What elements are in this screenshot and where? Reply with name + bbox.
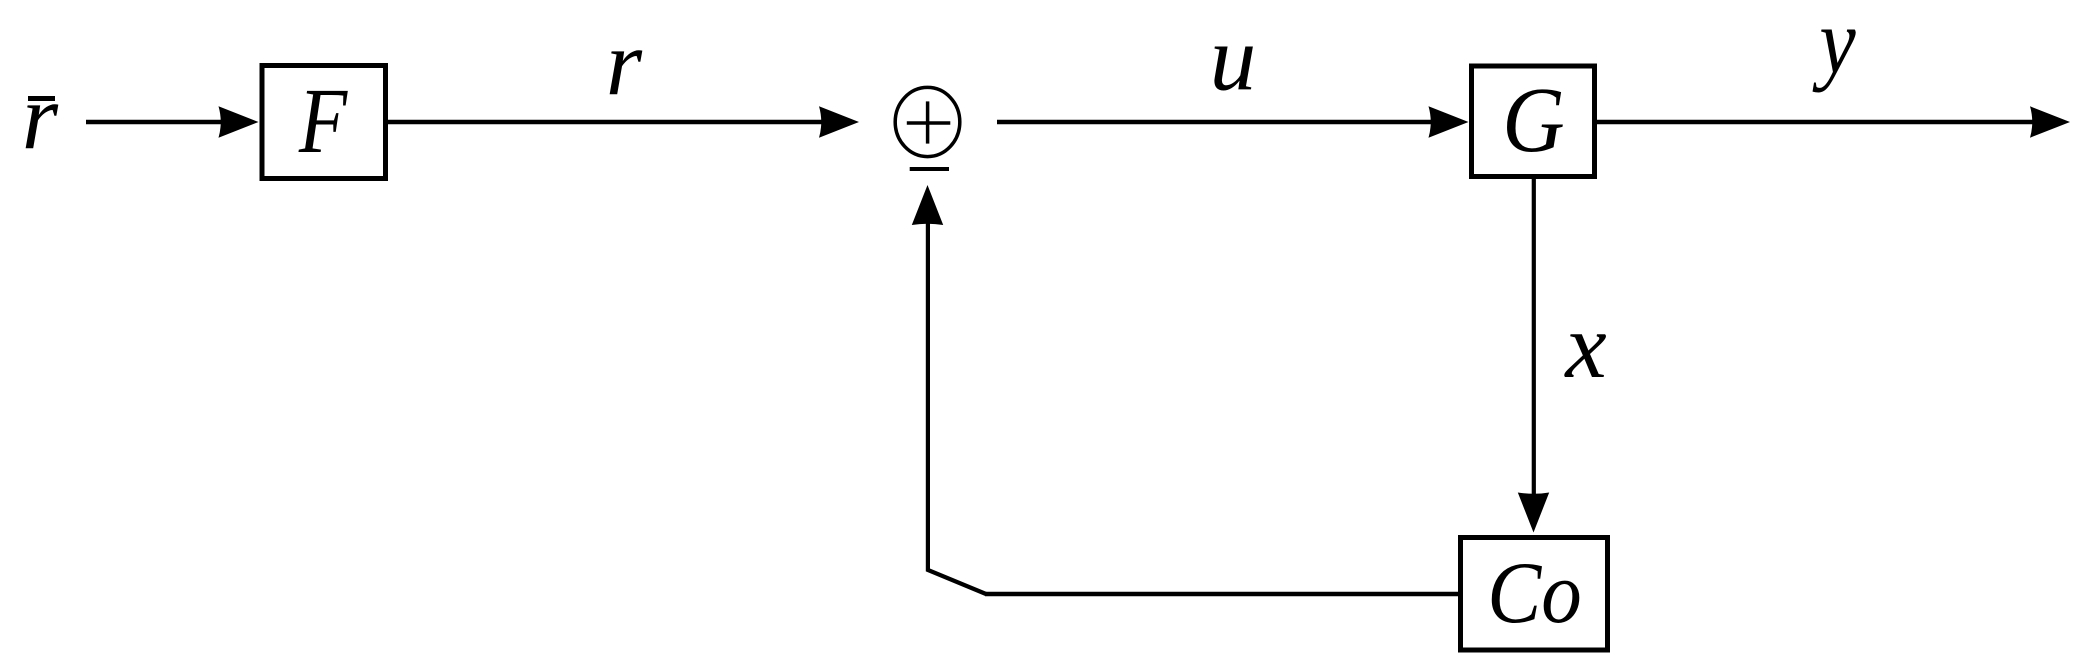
svg-text:Co: Co <box>1487 545 1581 642</box>
arrowhead down into Co <box>1518 493 1549 533</box>
feedback wire horizontal from Co <box>985 592 1459 596</box>
arrowhead up into minus <box>912 185 943 225</box>
arrowhead output <box>2030 106 2070 137</box>
svg-text:G: G <box>1502 69 1564 172</box>
wire G to output <box>1597 120 2033 124</box>
wire sum to G <box>997 120 1432 124</box>
svg-text:y: y <box>1812 0 1856 93</box>
svg-text:r: r <box>606 12 643 115</box>
feedback wire vertical + diagonal <box>928 221 986 594</box>
svg-text:u: u <box>1210 8 1257 111</box>
arrowhead into G <box>1429 106 1469 137</box>
block G <box>1472 66 1595 177</box>
wire r-bar to F <box>86 120 221 124</box>
svg-text:F: F <box>298 69 348 172</box>
svg-text:x: x <box>1563 295 1606 398</box>
block F <box>262 66 386 179</box>
arrowhead into sum <box>819 106 859 137</box>
minus sign below sum <box>910 167 949 171</box>
summing junction circle <box>895 87 960 156</box>
arrowhead into F <box>219 106 259 137</box>
wire F to sum <box>388 120 822 124</box>
svg-text:r: r <box>22 66 59 169</box>
block Co <box>1461 538 1608 651</box>
label r-bar <box>22 66 59 169</box>
wire G down to Co <box>1532 179 1536 497</box>
plus sign <box>907 101 951 143</box>
